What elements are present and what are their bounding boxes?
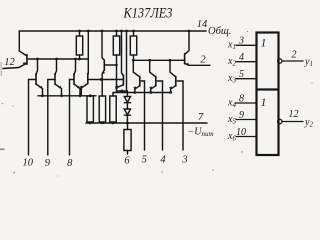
svg-text:10: 10 (236, 127, 246, 138)
svg-text:x4: x4 (227, 98, 236, 110)
wire: pin 8 lead (69, 80, 71, 156)
transistor VT3 input x5 (pin 9) (48, 59, 62, 96)
svg-text:−Uпит: −Uпит (188, 127, 214, 139)
wire: input stub x4 pin 8 (236, 102, 256, 104)
svg-text:5: 5 (239, 69, 244, 80)
wire: output y2 pin 12 (282, 121, 303, 123)
wire: emitter bus gate 2 (38, 95, 96, 97)
resistor R4 emitter gate 2 (87, 96, 93, 123)
wire: negative supply rail (−Uпит, pin 7) (86, 122, 207, 124)
svg-text:y1: y1 (304, 57, 313, 69)
svg-text:x3: x3 (227, 73, 236, 85)
svg-text:2: 2 (292, 50, 297, 61)
svg-text:x2: x2 (227, 56, 236, 68)
resistor R2 bias divider (113, 31, 119, 91)
gate U1.1 logic symbol (3OR-NOT) box (257, 33, 279, 156)
inversion circle output y1 (278, 59, 282, 63)
wire: bias junction (117, 90, 128, 92)
wire: pin 4 lead (162, 81, 164, 150)
wire: node Y1 (collector bus, gate 1) (134, 59, 182, 61)
svg-text:Общ.: Общ. (208, 26, 231, 37)
transistor VT2 input x4 (pin 10) (29, 59, 43, 96)
svg-text:x5: x5 (227, 114, 236, 126)
svg-text:1: 1 (261, 37, 267, 49)
svg-text:12: 12 (4, 57, 15, 68)
svg-text:6: 6 (124, 156, 130, 167)
wire: input stub x3 pin 5 (236, 78, 256, 80)
wire: output y1 pin 2 (282, 60, 303, 62)
svg-text:5: 5 (142, 155, 147, 166)
transistor VT1 output emitter follower y2 (pin 12) (3, 31, 27, 69)
wire: pin 5 lead (144, 81, 146, 150)
resistor R3 load gate 1 (130, 31, 136, 60)
svg-text:9: 9 (45, 158, 51, 169)
svg-text:9: 9 (239, 110, 244, 121)
wire: pin 3 lead (182, 81, 184, 150)
svg-text:4: 4 (239, 52, 244, 63)
wire: bias column (126, 31, 128, 91)
diode VD1 (124, 91, 130, 103)
svg-text:3: 3 (238, 36, 244, 47)
transistor VT6 bias follower (101, 31, 117, 96)
wire: input stub x1 pin 3 (236, 44, 256, 46)
transistor VT4 input x6 (pin 8) (70, 59, 81, 96)
svg-text:1: 1 (261, 97, 267, 109)
svg-text:10: 10 (23, 158, 34, 169)
svg-text:12: 12 (289, 109, 299, 120)
transistor VT7 bias follower 2 (115, 31, 123, 89)
svg-text:2: 2 (200, 55, 206, 66)
scan speckles (noise) (0, 31, 313, 177)
junction dots on node Y2 (36, 58, 81, 61)
wire: bias node (VT5 base) (89, 79, 123, 81)
transistor VT10 input x2 (pin 4) (149, 60, 163, 92)
svg-text:3: 3 (181, 155, 187, 166)
wire: node Y2 (collector bus, gate 2) (28, 58, 88, 60)
wire: pin 10 lead (28, 80, 30, 156)
junction dots on common rail (78, 30, 190, 67)
resistor R6 emitter gate 1 (110, 96, 116, 123)
svg-text:4: 4 (160, 155, 166, 166)
wire: input stub x2 pin 4 (236, 61, 256, 63)
transistor VT11 input x3 (pin 3) (169, 60, 183, 92)
transistor VT5 reference gate 2 (80, 31, 89, 96)
wire: emitter bus gate 1 (113, 93, 171, 97)
svg-text:7: 7 (198, 112, 204, 123)
resistor R1 load gate 2 (76, 31, 82, 59)
svg-text:14: 14 (197, 19, 208, 30)
wire: pin 9 lead (47, 80, 49, 156)
transistor VT9 input x1 (pin 5) (133, 60, 144, 92)
resistor R7 to pin 6 (124, 123, 131, 154)
transistor VT12 output emitter follower y1 (pin 2) (182, 31, 210, 66)
svg-text:8: 8 (67, 158, 73, 169)
inversion circle output y2 (278, 119, 282, 123)
wire: common rail (Общ, pin 14) (20, 30, 206, 32)
svg-text:К137ЛЕ3: К137ЛЕ3 (123, 6, 173, 22)
resistor R5 emitter (99, 96, 105, 123)
wire: input stub x5 pin 9 (236, 119, 256, 121)
svg-text:8: 8 (239, 94, 244, 105)
svg-text:x1: x1 (227, 40, 236, 52)
wire: input stub x6 pin 10 (236, 136, 256, 138)
svg-text:y2: y2 (304, 117, 313, 129)
gate divider (257, 88, 279, 90)
diode VD2 (124, 103, 130, 123)
